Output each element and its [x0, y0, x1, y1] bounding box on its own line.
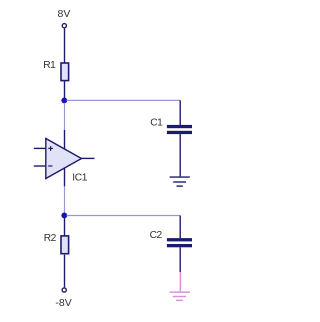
wire node A down (light segment) [64, 103, 66, 130]
svg-text:C1: C1 [150, 118, 163, 129]
wire R1 to node A [64, 82, 66, 100]
svg-text:C2: C2 [150, 230, 163, 241]
wire to pink ground (pink segment) [179, 272, 181, 292]
wire IC1 V+ pin stub [64, 130, 66, 149]
svg-text:8V: 8V [58, 8, 71, 20]
ground (below C2, pink) [170, 292, 190, 300]
wire C1 bottom plate to ground [179, 134, 181, 176]
wire node A to C1 corner (horizontal, light) [67, 99, 181, 101]
wire IC1 V- to node B (light segment) [64, 186, 66, 213]
wire node B to C2 corner (horizontal, light) [67, 215, 181, 217]
svg-text:-8V: -8V [55, 297, 71, 309]
resistor R2 [61, 236, 69, 254]
node B junction [62, 213, 67, 218]
IC1 non-inverting input stub [34, 147, 46, 149]
power terminal -8V [62, 288, 66, 292]
node A junction [62, 98, 67, 103]
resistor R1 [61, 63, 69, 81]
wire C2 bottom plate down (navy segment) [179, 247, 181, 272]
svg-text:R2: R2 [44, 233, 57, 244]
op-amp IC1 [46, 139, 82, 179]
wire node B to R2 [64, 217, 66, 236]
IC1 inverting input stub [34, 165, 46, 167]
wire 8V terminal to R1 [64, 28, 66, 62]
capacitor C2 [167, 238, 192, 247]
capacitor C1 [167, 125, 192, 134]
wire corner down to C2 top plate [179, 216, 181, 239]
power terminal +8V [62, 24, 66, 28]
IC1 output stub [82, 157, 95, 159]
svg-text:R1: R1 [43, 60, 56, 71]
svg-text:IC1: IC1 [72, 172, 88, 183]
wire IC1 V- pin stub [64, 168, 66, 187]
wire R2 to -8V terminal [64, 255, 66, 288]
ground (below C1) [170, 177, 190, 186]
wire corner down to C1 top plate [179, 100, 181, 125]
